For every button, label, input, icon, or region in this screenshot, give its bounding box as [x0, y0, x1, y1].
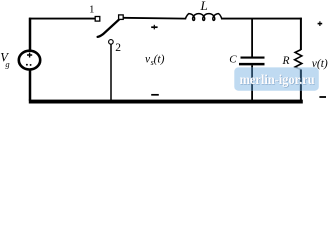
- switch contact pivot square: [119, 15, 124, 20]
- svg-text:g: g: [5, 59, 9, 69]
- label L: [200, 0, 208, 13]
- watermark text: [240, 73, 316, 89]
- node junction capacitor tap: [251, 18, 253, 57]
- wire left branch lower: [29, 69, 32, 100]
- wire left branch upper: [29, 18, 32, 51]
- label Vg: [0, 50, 9, 68]
- ground bottom rail: [29, 100, 303, 104]
- switch contact 2 circle: [109, 40, 114, 45]
- wire top rail middle segment: [123, 17, 186, 20]
- svg-text:R: R: [282, 55, 290, 67]
- svg-text:L: L: [200, 0, 208, 13]
- capacitor C top plate: [241, 57, 265, 59]
- svg-text:C: C: [229, 54, 237, 66]
- wire capacitor to ground rail: [251, 65, 253, 100]
- watermark box merlin-igor.ru: [234, 67, 318, 90]
- inductor L coil: [185, 14, 221, 21]
- wire right branch upper: [300, 18, 302, 50]
- wire capacitor through-box segment: [251, 67, 253, 90]
- label 2: [115, 42, 121, 54]
- resistor R zigzag: [295, 50, 302, 70]
- label v(t) output: [312, 58, 328, 70]
- capacitor C bottom plate: [239, 63, 265, 66]
- voltage source minus mark dots: [26, 64, 32, 66]
- switch contact 1 square: [95, 17, 100, 22]
- voltage source plus mark: [27, 53, 32, 58]
- wire right branch lower: [300, 69, 302, 100]
- svg-text:2: 2: [115, 42, 121, 54]
- switch blade SW: [98, 19, 120, 37]
- wire top rail right segment: [221, 18, 302, 20]
- svg-text:1: 1: [89, 3, 95, 15]
- node vs plus polarity: [151, 25, 157, 30]
- node v(t) plus polarity: [318, 21, 323, 26]
- wire contact 2 to ground rail: [110, 44, 112, 101]
- svg-text:(t): (t): [154, 53, 165, 65]
- label C: [229, 54, 237, 66]
- node vs minus polarity: [151, 94, 159, 96]
- voltage source Vg circle: [19, 51, 40, 70]
- wire resistor through-box segment: [300, 70, 302, 91]
- label R: [282, 55, 290, 67]
- label vs(t): [145, 53, 165, 67]
- wire top rail left segment: [29, 18, 95, 20]
- node v(t) minus polarity: [319, 96, 326, 98]
- label 1: [89, 3, 95, 15]
- svg-text:merlin-igor.ru: merlin-igor.ru: [240, 73, 315, 88]
